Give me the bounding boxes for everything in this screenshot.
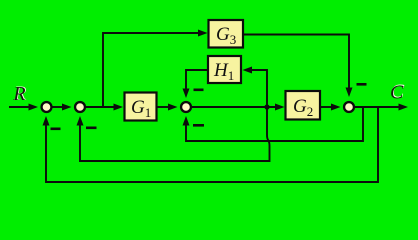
block G1 — [125, 93, 157, 121]
wire G1 to summing junction S3 — [157, 104, 178, 111]
minus sign at S3 bottom input — [193, 124, 204, 127]
wire feedback from node A to S2 bottom with crossover hop — [77, 107, 270, 161]
wire G2 to summing junction S4 — [320, 104, 341, 111]
minus sign at S1 bottom input — [51, 128, 61, 131]
wire pickoff node A up into block H1 — [243, 67, 268, 108]
block H1 — [208, 56, 241, 83]
wire S2 to block G1 — [86, 104, 124, 111]
wire feedback from output pickoff to S3 bottom — [183, 107, 364, 141]
wire S4 to output C — [355, 104, 409, 111]
summing junction S4 — [344, 102, 354, 112]
svg-text:C: C — [390, 82, 404, 104]
wire outer feedback from output pickoff to S1 bottom — [43, 107, 379, 182]
summing junction S2 — [75, 102, 85, 112]
block G3 — [209, 20, 244, 48]
wire S3 to block G2 — [192, 104, 285, 111]
wire input arrow into summing junction S1 — [9, 104, 38, 111]
wire S1 to S2 — [53, 104, 72, 111]
summing junction S3 — [181, 102, 191, 112]
junction dot node A — [264, 104, 269, 109]
wire G3 output down into S4 — [243, 35, 353, 98]
block G2 — [286, 91, 321, 120]
wire pickoff up-feed to block G3 — [103, 30, 208, 108]
summing junction S1 — [42, 102, 52, 112]
minus sign at S4 top input — [357, 83, 367, 86]
svg-text:R: R — [12, 83, 25, 105]
wire H1 output down into S3 — [183, 70, 209, 98]
minus sign at S2 bottom input — [86, 127, 97, 130]
minus sign at S3 top input — [194, 89, 204, 92]
